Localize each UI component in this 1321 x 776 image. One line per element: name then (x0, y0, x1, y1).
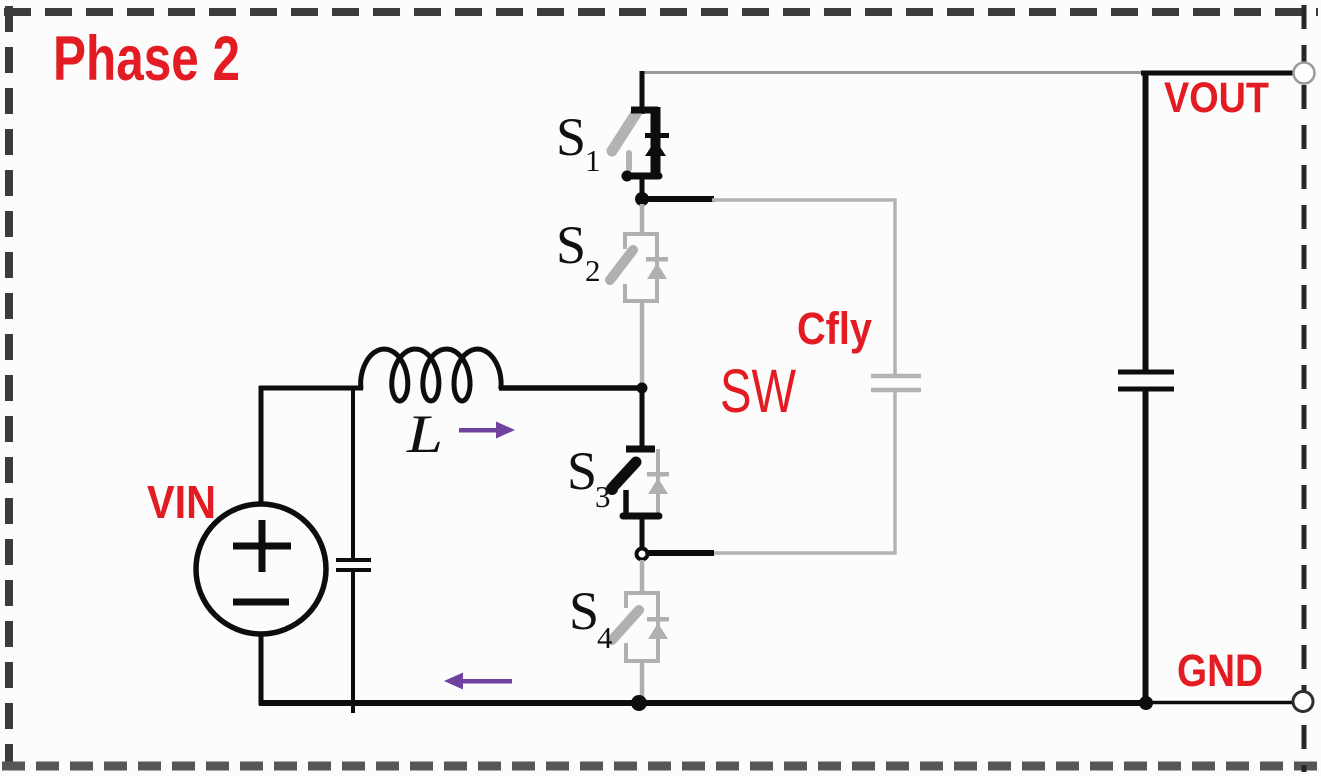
S3 lever (closed) (613, 462, 636, 487)
inductor L (361, 349, 501, 401)
S1 source wire (640, 176, 645, 199)
source VIN (196, 386, 326, 705)
svg-text:S: S (556, 107, 586, 167)
VIN plus (233, 543, 291, 550)
S3 lower-left stub (623, 490, 629, 514)
label S2 (556, 215, 601, 288)
S3 source wire (640, 516, 645, 549)
wire: S1 drain up to top rail (640, 71, 645, 114)
svg-text:Phase 2: Phase 2 (53, 24, 240, 94)
S1 body diode (645, 133, 669, 156)
switch S4 (off, gray) (612, 560, 660, 701)
S2 lower-left stub (623, 284, 627, 303)
label S4 (569, 581, 613, 655)
switch S3 (closed lever, black; diode gray) (606, 388, 669, 549)
capacitor Cout (1118, 372, 1174, 389)
svg-text:VOUT: VOUT (1164, 74, 1269, 122)
arrow current left (purple) (444, 673, 512, 690)
capacitor Cin branch (336, 386, 371, 713)
VIN minus (233, 599, 289, 606)
svg-text:S: S (569, 581, 599, 641)
S3 bottom bar (623, 513, 659, 520)
S3 gray body diode (647, 472, 669, 494)
S1 right branch (651, 107, 661, 176)
S2 body diode (646, 257, 668, 279)
S4 top bar (624, 591, 660, 595)
label S3 (567, 441, 611, 514)
S1 top bar (631, 107, 658, 114)
VIN circle (196, 504, 326, 634)
svg-text:Cfly: Cfly (797, 303, 872, 354)
S4 lever (612, 610, 639, 640)
VIN bottom lead (259, 634, 264, 705)
svg-text:VIN: VIN (147, 476, 216, 528)
junction below S4 (631, 695, 647, 711)
wire: Cfly top gray (712, 200, 895, 374)
arrow current right (purple) (459, 422, 515, 439)
wire: Cfly bottom gray (712, 392, 895, 553)
S4 drain wire (640, 560, 645, 595)
S4 bottom bar (624, 659, 660, 663)
switch S2 (off, gray) (610, 204, 659, 386)
Cin bottom lead (351, 571, 355, 713)
wire: top rail gray from S1 top to output branch (641, 71, 1143, 74)
svg-text:4: 4 (597, 620, 613, 655)
ground bus thick (259, 700, 1148, 706)
junction at Cout/ground bus (1139, 696, 1153, 710)
svg-text:S: S (556, 215, 586, 275)
wire: VIN top horizontal (259, 386, 363, 391)
S3 top bar (626, 446, 655, 453)
S4 body diode (647, 617, 669, 639)
output branch vertical (1143, 73, 1149, 372)
S4 source wire down to ground bus (640, 661, 645, 701)
svg-text:GND: GND (1177, 645, 1263, 696)
svg-text:SW: SW (720, 357, 796, 425)
node SW (637, 383, 648, 394)
S2 drain wire (640, 204, 645, 236)
capacitor Cfly (871, 376, 921, 390)
S1 bottom bar (625, 173, 659, 180)
switch S1 (closed path through body diode, black; lever gray) (612, 107, 669, 199)
Cin top lead (351, 386, 355, 559)
wire: top rail black to VOUT terminal (1141, 71, 1294, 76)
svg-text:L: L (406, 404, 443, 464)
S4 left top stub (624, 593, 628, 608)
svg-text:3: 3 (595, 479, 611, 514)
S2 top bar (623, 232, 659, 236)
svg-text:2: 2 (585, 253, 601, 288)
S4 lower-left stub (624, 643, 628, 663)
S4 right branch (656, 593, 660, 661)
wire: inductor to SW node (499, 385, 643, 391)
S3 gray right branch (656, 449, 660, 516)
S2 source wire down to SW node (640, 301, 645, 386)
node B (S3/S4/Cfly bottom junction, open dot) (637, 549, 648, 560)
label S1 (556, 107, 601, 178)
S2 bottom bar (623, 299, 659, 303)
S2 right branch (655, 234, 659, 301)
output branch vertical lower (1143, 391, 1149, 703)
S2 lever (610, 250, 633, 280)
terminal GND (1293, 692, 1313, 712)
S1 gray lever (612, 112, 637, 151)
S3 drain wire (640, 388, 645, 452)
Cin plates (336, 558, 371, 562)
node A (S1/S2/Cfly top junction) (635, 192, 649, 206)
svg-text:S: S (567, 441, 597, 501)
S1 gray contact stub (626, 153, 632, 169)
wire: node B to Cfly bottom (black part) (642, 550, 714, 556)
VIN top lead (259, 386, 264, 505)
S2 left top stub (623, 234, 627, 249)
svg-text:1: 1 (585, 143, 601, 178)
terminal VOUT (1294, 63, 1315, 84)
ground bus thin to GND terminal (1148, 701, 1294, 705)
wire: node A to Cfly top (black part) (642, 196, 714, 202)
